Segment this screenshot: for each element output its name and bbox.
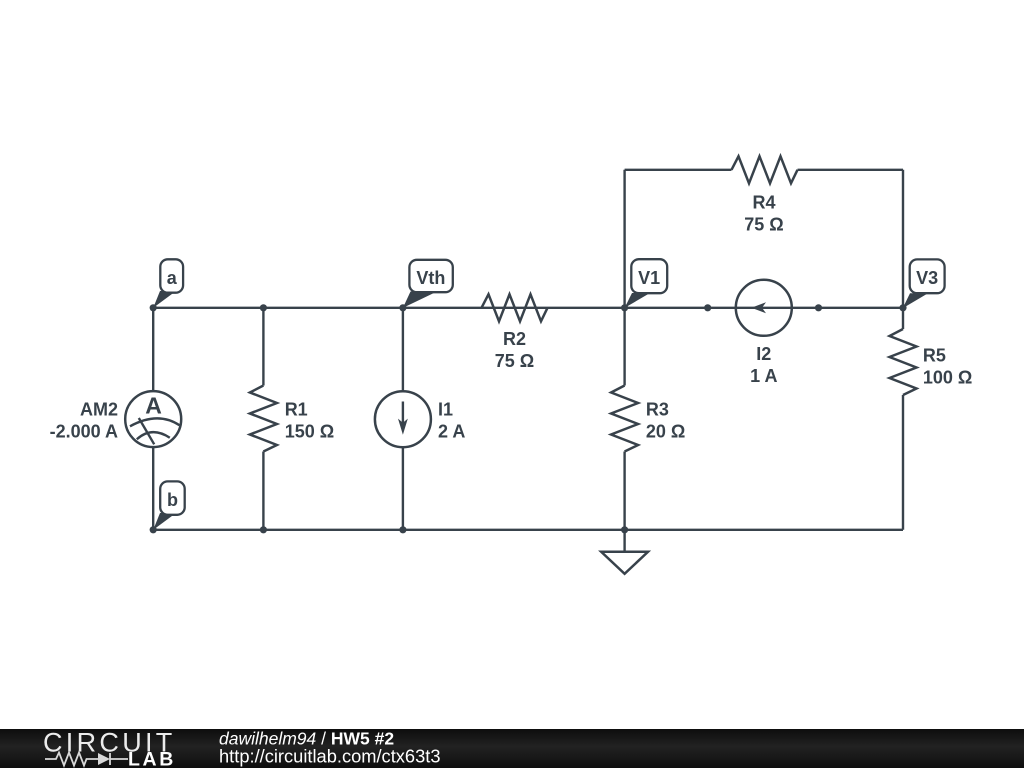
svg-text:2 A: 2 A: [438, 422, 465, 442]
resistor R3: [611, 386, 685, 452]
junction dot I2 left terminal: [704, 304, 711, 311]
junction dot b: [150, 526, 157, 533]
ammeter AM2: [50, 391, 182, 447]
junction dot bottom R3/ground: [621, 526, 628, 533]
svg-text:75 Ω: 75 Ω: [495, 351, 534, 371]
junction dot bottom R1: [260, 526, 267, 533]
svg-text:http://circuitlab.com/ctx63t3: http://circuitlab.com/ctx63t3: [219, 746, 441, 767]
node b: [153, 481, 185, 530]
node V3: [903, 259, 945, 308]
node Vth: [403, 260, 453, 308]
junction dot Vth: [399, 304, 406, 311]
wire R4 loop top right segment: [798, 169, 904, 171]
wire R3 branch bottom lead: [623, 452, 625, 530]
wire I1 branch top lead: [402, 308, 404, 391]
logo resistor-diode squiggle: [45, 753, 128, 766]
junction dot I2 right terminal: [815, 304, 822, 311]
svg-text:I2: I2: [756, 344, 771, 364]
wire R1 branch bottom lead: [262, 452, 264, 530]
footer bar: [0, 729, 1024, 768]
wire bottom rail b to R5: [153, 529, 903, 531]
wire R5 bottom lead: [902, 395, 904, 530]
svg-text:b: b: [167, 490, 178, 510]
svg-text:V3: V3: [916, 268, 938, 288]
wire R1 branch top lead: [262, 308, 264, 386]
svg-text:R2: R2: [503, 329, 526, 349]
resistor R4: [732, 156, 798, 234]
svg-text:-2.000 A: -2.000 A: [50, 422, 118, 442]
svg-text:R3: R3: [646, 400, 669, 420]
resistor R1: [250, 386, 334, 452]
svg-text:100 Ω: 100 Ω: [923, 368, 972, 388]
svg-text:R4: R4: [752, 193, 775, 213]
svg-text:75 Ω: 75 Ω: [744, 215, 783, 235]
svg-text:20 Ω: 20 Ω: [646, 422, 685, 442]
svg-text:A: A: [145, 393, 162, 419]
wire R4 loop left vertical: [623, 170, 625, 308]
svg-text:V1: V1: [638, 268, 660, 288]
svg-text:a: a: [167, 268, 178, 288]
junction dot bottom I1: [399, 526, 406, 533]
wire R4 loop top left segment: [625, 169, 732, 171]
wire left branch a to AM2: [152, 308, 154, 391]
svg-text:R5: R5: [923, 346, 946, 366]
resistor R2: [482, 294, 548, 371]
junction dot V3: [899, 304, 906, 311]
wire R4 loop right vertical: [902, 170, 904, 308]
current source I1: [375, 391, 465, 447]
svg-text:R1: R1: [285, 400, 308, 420]
junction dot V1: [621, 304, 628, 311]
node V1: [625, 259, 668, 308]
node a: [153, 259, 183, 308]
resistor R5: [890, 329, 973, 395]
current source I2: [736, 280, 792, 386]
svg-text:I1: I1: [438, 400, 453, 420]
svg-text:Vth: Vth: [416, 268, 445, 288]
svg-text:150 Ω: 150 Ω: [285, 422, 334, 442]
wire AM2 to b: [152, 447, 154, 530]
wire I1 branch bottom lead: [402, 447, 404, 530]
svg-text:1 A: 1 A: [750, 366, 777, 386]
svg-text:LAB: LAB: [128, 749, 176, 768]
wire R5 top lead: [902, 308, 904, 329]
wire R3 branch top lead: [623, 308, 625, 386]
junction dot a: [150, 304, 157, 311]
ground: [601, 530, 648, 574]
wire top rail a-Vth-V1-V3: [153, 307, 903, 309]
svg-text:AM2: AM2: [80, 400, 118, 420]
junction dot top R1: [260, 304, 267, 311]
